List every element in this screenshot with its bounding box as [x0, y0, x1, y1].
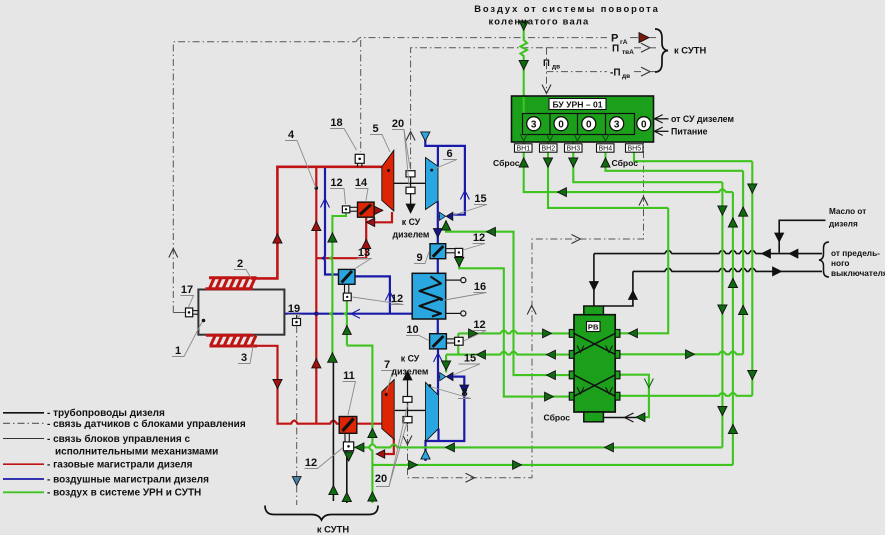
node: VN3 down arrow r3 — [718, 406, 727, 415]
svg-text:3: 3 — [614, 119, 620, 130]
node: down arrow below valve-11 sensor — [344, 452, 353, 461]
node: VN5 terminal box — [626, 144, 644, 152]
svg-text:дизелем: дизелем — [393, 230, 430, 240]
node: open down arrow into BU URN top — [542, 85, 551, 94]
wire: valve 13 to exhaust line tap with hop over red — [322, 168, 339, 275]
svg-text:12: 12 — [305, 457, 317, 469]
svg-text:П: П — [543, 58, 550, 69]
turbine 7 — [382, 380, 394, 440]
wire: line1 drop to RV valve — [593, 254, 595, 306]
node: VN5 down arrow r2 — [748, 370, 757, 379]
legend: air mains swatch — [3, 478, 44, 480]
node: indicator circle VN4 digit 3 — [610, 117, 624, 131]
legend: gas mains swatch — [3, 463, 44, 465]
node: port4 right arrow — [545, 392, 554, 401]
wire: turbine 5 outlet stub with left arrow — [373, 212, 392, 222]
node: junction dot at red crossing — [314, 312, 318, 316]
svg-text:18: 18 — [330, 117, 342, 129]
heat exchanger 16 — [412, 273, 446, 319]
wire: VN1 riser x732.9 down — [732, 192, 734, 465]
svg-text:- воздушные магистрали дизеля: - воздушные магистрали дизеля — [47, 474, 209, 485]
node: red up arrow on riser x277 — [273, 234, 282, 243]
wire: VN5 net - right at y161 — [634, 152, 752, 161]
wire: return line to limit switch (line 2) — [633, 268, 822, 271]
wire: valve-14 sensor green drop with hops — [329, 213, 346, 356]
node: open up arrow on valve13 riser — [385, 292, 394, 301]
wire: green supply from crankshaft turn system — [521, 28, 528, 96]
svg-text:Питание: Питание — [671, 127, 708, 137]
svg-text:12: 12 — [473, 232, 485, 244]
node: red up arrow on x316 riser lower — [312, 359, 321, 368]
svg-text:коленчатого вала: коленчатого вала — [489, 16, 590, 27]
node: VN2 terminal box — [540, 144, 558, 152]
node: up arrow to upper bowtie — [441, 221, 450, 230]
svg-text:15: 15 — [474, 193, 486, 205]
wire: dash-dot branch -P_dv to SUTN — [547, 71, 608, 73]
node: black down arrow into RV — [590, 282, 599, 291]
svg-text:ВН2: ВН2 — [541, 146, 555, 153]
node: VN2 down arrow at box — [543, 158, 552, 167]
node: BU URN title box — [549, 99, 606, 110]
valve 13 (blue) — [339, 269, 356, 284]
thermometer port upper of HX — [446, 279, 461, 281]
node: open down arrow on sbros drop — [644, 379, 653, 388]
wire: VN3 riser x722.4 down to y447 — [721, 182, 723, 447]
node: dark up arrow near SUTN brace x333 — [329, 485, 338, 494]
wire: dash-dot from P_tvA line down into BU URN — [546, 48, 548, 94]
svg-text:ВН1: ВН1 — [516, 146, 530, 153]
node: open up arrow on x464.9 — [460, 191, 469, 200]
svg-text:от предель-: от предель- — [831, 248, 880, 258]
svg-text:дизеля: дизеля — [829, 220, 858, 229]
sensor 17 — [186, 308, 193, 317]
node: VN1 left arrow — [558, 188, 567, 197]
node: red up arrow to valve 14 — [362, 239, 371, 248]
node: VN1 up arrow on riser 2 — [728, 278, 737, 287]
wire: turbine 7 outlet stub with left arrow — [379, 439, 394, 454]
svg-text:Масло от: Масло от — [829, 207, 866, 216]
wire: VN4 net - right at y171 — [606, 152, 744, 171]
node: indicator circle VN2 digit 0 — [554, 117, 568, 131]
node: open up arrow on feedback riser — [527, 306, 536, 315]
node: open down arrow on lower coupling link — [403, 436, 412, 445]
svg-text:Воздух от системы поворота: Воздух от системы поворота — [474, 3, 660, 14]
sensor 18 on exhaust line — [355, 154, 364, 163]
wire: valve 14 outlet to turbine 5 with right arrow — [374, 209, 382, 211]
control unit BU URN - 01 — [512, 96, 654, 142]
node: RV bottom tab — [584, 412, 604, 422]
svg-text:- газовые магистрали дизеля: - газовые магистрали дизеля — [47, 460, 193, 471]
node: black left arrow on line1 outer — [789, 249, 798, 258]
wire: bowtie-upper vent to RV left port3 — [446, 221, 569, 376]
svg-text:6: 6 — [446, 148, 452, 160]
svg-text:13: 13 — [358, 247, 370, 259]
node: open right arrow on SU link — [572, 235, 581, 244]
node: down arrow below valve-9 sensor — [455, 257, 464, 266]
wire: Pitanie input arrow — [655, 130, 669, 132]
wire: compressor 6 to valve 9 / HX riser — [437, 201, 439, 244]
wire: red branch riser x316 (node 4) — [315, 167, 317, 424]
valve 9 (blue) — [430, 244, 446, 259]
svg-text:0: 0 — [558, 119, 564, 130]
legend: control unit links swatch — [3, 438, 44, 440]
coupling 20 lower (sensor boxes on shaft) — [407, 378, 409, 424]
node: green down arrow top — [519, 21, 528, 30]
wire: VN5 riser x752 to RV port4 level — [751, 161, 753, 396]
svg-text:ВН3: ВН3 — [566, 146, 580, 153]
wire: turbo 5-6 shaft — [394, 182, 426, 184]
svg-text:1: 1 — [175, 345, 181, 357]
svg-text:к СУТН: к СУТН — [317, 524, 350, 535]
wire: valve-13 sensor green drop — [344, 301, 347, 346]
node: VN1 terminal box — [515, 144, 533, 152]
wire: HX 16 to valve 10 — [437, 319, 439, 334]
wire: valve 11 to turbine 7 inlet — [357, 423, 382, 425]
node: y447 left arrow mid — [446, 443, 455, 452]
wire: bowtie 15 left connector — [438, 215, 440, 217]
svg-text:ВН5: ВН5 — [627, 146, 641, 153]
node: up arrow on x372 riser — [368, 428, 377, 437]
sensor 12 of valve 11 — [343, 442, 353, 451]
node: indicator circle VN1 digit 3 — [527, 117, 541, 131]
wire: exhaust manifold 3 to valve 11 / turbine 7 — [254, 346, 339, 424]
node: open up arrow on sensor-17 link — [169, 249, 178, 258]
node: VN1 up arrow on riser 1 — [728, 218, 737, 227]
node: intake down arrow light blue — [421, 132, 430, 141]
exhaust manifold 3 (hatched) — [206, 335, 257, 346]
node: sbros green left arrow — [636, 413, 645, 422]
wire: VN2 riser x668 to RV right port1 — [621, 208, 669, 333]
node: port3 left arrow — [547, 371, 556, 380]
node: VN4 up arrow r1 — [739, 207, 748, 216]
node: red down arrow on manifold-3 drop — [273, 379, 282, 388]
svg-text:дизелем: дизелем — [392, 367, 429, 377]
node: port2 right arrow — [686, 350, 695, 359]
wire: ot SU dizelem input arrow — [655, 118, 669, 120]
wire: valve 9 to HX 16 — [437, 259, 439, 274]
node: blue-gray down arrow on sensor-19 link — [292, 477, 301, 486]
node: black up arrow on line2 drop — [629, 291, 638, 300]
svg-text:0: 0 — [641, 119, 647, 130]
node: brace ot predelnogo — [819, 242, 829, 277]
node: blue down arrow above valve 9 — [433, 229, 442, 238]
legend: sensor links swatch — [3, 422, 44, 424]
svg-text:15: 15 — [464, 353, 476, 365]
wire: RV sbros black segment — [603, 417, 636, 419]
thermometer port lower of HX — [446, 312, 461, 314]
bowtie valve 15 lower — [440, 373, 446, 381]
svg-text:11: 11 — [343, 370, 355, 382]
node: right arrow on y465 inner — [409, 461, 418, 470]
svg-text:20: 20 — [375, 473, 387, 485]
wire: dash-dot from coupling 20 up to P_tvA line — [411, 48, 547, 169]
wire: RV right port3 sbros loop — [621, 375, 649, 418]
wire: valve 10 to compressor 8 — [437, 349, 439, 395]
node: up arrow on valve-13 sensor line — [343, 326, 352, 335]
wire: valve 13 riser to charge line — [355, 276, 390, 313]
svg-text:ного: ного — [831, 258, 850, 268]
node: VN2 left arrow into RV port1 — [629, 329, 638, 338]
node: open up arrow below valve 10 — [434, 353, 443, 362]
sensor 12 of valve 10 — [455, 337, 464, 345]
node: VN3 terminal box — [565, 144, 583, 152]
sensor 19 — [296, 314, 298, 319]
valve 14 (red, with actuator stripe) — [358, 202, 375, 217]
svg-text:20: 20 — [392, 118, 404, 130]
svg-text:Сброс: Сброс — [544, 413, 571, 423]
wire: bowtie-lower vent drop — [445, 355, 447, 373]
wire: bowtie 15 lower left connector — [438, 376, 440, 378]
node: k SUTN bottom brace — [265, 506, 378, 521]
wire: dash-dot link sensor 17 to top bus — [173, 42, 356, 313]
wire: compressor 6 discharge stub — [437, 146, 439, 166]
node: port1 right arrow b — [543, 329, 552, 338]
wire: black SUTN line from valve-11 sensor x347 — [346, 451, 348, 503]
node: dark green up arrow at green-black junction — [328, 353, 338, 363]
wire: dash-dot drop to sensor 18 — [360, 40, 362, 152]
svg-text:гА: гА — [620, 39, 628, 46]
wire: line2 drop to RV tab — [603, 271, 633, 306]
svg-text:исполнительными механизмами: исполнительными механизмами — [55, 447, 218, 458]
sensor 12 of valve 14 — [342, 206, 349, 213]
node: port2 left arrow b — [547, 350, 556, 359]
node: RV side ports — [569, 330, 574, 338]
wire: exhaust manifold 2 to turbine 5 inlet — [251, 167, 382, 279]
node: VN1 up arrow on riser 3 — [728, 424, 737, 433]
wire: valve-10 sensor to RV left port1 with hops — [458, 331, 569, 334]
svg-text:дв: дв — [552, 64, 560, 71]
wire: VN1 return horizontal y465 — [372, 464, 733, 466]
air distributor RV — [574, 315, 615, 412]
node: open up arrow light blue on tap — [321, 199, 330, 208]
svg-text:14: 14 — [355, 177, 368, 189]
svg-text:дв: дв — [622, 73, 630, 80]
svg-text:ВН4: ВН4 — [598, 146, 612, 153]
node: black left arrow on line1 inner — [762, 249, 771, 258]
wire: green line inside BU URN — [523, 97, 525, 114]
svg-text:от СУ дизелем: от СУ дизелем — [671, 114, 734, 124]
node: black right arrow on line2 — [773, 267, 782, 276]
svg-text:- воздух в системе УРН и СУТН: - воздух в системе УРН и СУТН — [47, 488, 201, 499]
wire: turbo 7-8 shaft — [395, 409, 426, 411]
node: BU URN inner cell frame — [523, 114, 635, 135]
legend: URN air swatch — [3, 491, 44, 493]
node: up arrow on valve-14 sensor line — [328, 233, 337, 242]
wire: charge air main line to engine — [284, 313, 412, 315]
node: dark up arrow near SUTN brace x347 — [342, 492, 351, 501]
node: open arrow P_tvA — [641, 43, 650, 52]
svg-text:19: 19 — [288, 303, 300, 315]
svg-text:2: 2 — [237, 258, 243, 270]
svg-text:7: 7 — [384, 359, 390, 371]
node: open right arrow on feedback line — [466, 473, 475, 482]
node: left arrow on bowtie vent line — [487, 227, 496, 236]
node: y447 left arrow at sensor — [355, 443, 364, 452]
svg-text:9: 9 — [416, 252, 422, 264]
node: open arrow -P_dv — [641, 67, 650, 76]
node: port2 left arrow a — [477, 350, 486, 359]
node: VN4 up arrow vent — [601, 158, 610, 167]
svg-text:-П: -П — [610, 68, 621, 79]
node: down arrow to lower bowtie — [442, 361, 451, 370]
svg-text:- связь блоков управления с: - связь блоков управления с — [47, 433, 190, 445]
node: open up arrow on coupling-20 link — [406, 132, 415, 141]
node: RV top tab — [584, 306, 604, 315]
node: VN3 down arrow r1 — [718, 206, 727, 215]
turbine 5 — [382, 150, 394, 211]
node: indicator circle VN3 digit 0 — [582, 117, 596, 131]
node: VN5 down arrow r1 — [748, 184, 757, 193]
wire: dash-dot from lower coupling 20 to BU URN (speed feedback) — [408, 142, 644, 478]
node: y447 left arrow outer — [605, 443, 614, 452]
legend: diesel pipelines swatch — [3, 412, 44, 414]
wire: oil supply line from limit switch (line 1) — [594, 250, 822, 253]
svg-text:твА: твА — [622, 49, 634, 56]
node: curly brace to SUTN top right — [655, 29, 668, 72]
node: indicator circle VN5 digit 0 — [637, 117, 651, 131]
svg-text:к СУТН: к СУТН — [674, 45, 707, 56]
wire: compressor 8 discharge stub — [437, 429, 439, 441]
node: RV label box — [587, 322, 601, 332]
svg-text:10: 10 — [406, 324, 418, 336]
svg-text:выключателя: выключателя — [831, 268, 885, 278]
svg-text:12: 12 — [330, 177, 342, 189]
svg-text:РВ: РВ — [588, 323, 599, 332]
wire: bowtie-lower line to RV left port2 with hops — [446, 352, 569, 355]
svg-text:16: 16 — [474, 281, 486, 293]
wire: VN2 net - to RV port 1 — [548, 142, 668, 208]
wire: dash-dot hop and P_gA line to SUTN — [356, 37, 607, 42]
node: leader dot for label 4 — [315, 186, 319, 190]
wire: red link to valve 14 bottom — [316, 217, 366, 258]
node: black down arrow on oil feed — [775, 233, 784, 242]
node: green down arrow below wiggle — [519, 60, 528, 69]
valve 11 (red) — [339, 417, 357, 434]
svg-text:5: 5 — [372, 123, 378, 135]
svg-text:П: П — [612, 44, 619, 55]
svg-text:к СУ: к СУ — [402, 217, 421, 227]
valve 10 (blue) — [430, 334, 447, 349]
svg-text:Сброс: Сброс — [612, 158, 639, 168]
wire: dash-dot from sensor 19 down — [296, 326, 298, 505]
node: right arrow on y465 outer — [513, 461, 522, 470]
engine block 1 — [198, 290, 284, 335]
svg-text:к СУ: к СУ — [401, 354, 420, 364]
wire: lower turbo loop bowtie to intake — [426, 377, 465, 461]
wire: VN1 return riser x372.4 with hop over y447 — [347, 346, 373, 465]
node: down arrow to SU diesel upper — [406, 204, 415, 213]
wire: oil line from Maslo ot dizelya — [779, 220, 825, 253]
svg-text:17: 17 — [181, 284, 193, 296]
node: intake up arrow light blue lower — [421, 450, 430, 459]
svg-text:- связь датчиков с блоками упр: - связь датчиков с блоками управления — [47, 418, 246, 430]
wire: compressor 6 intake stub — [425, 132, 465, 215]
wire: VN4 riser x743 to RV port2 level — [742, 171, 744, 354]
bowtie valve 15 upper — [440, 212, 446, 220]
svg-text:12: 12 — [473, 319, 485, 331]
wire: VN3 horizontal y447 to valve-11 sensor with hops — [354, 445, 723, 448]
node: up arrow to SU diesel lower — [403, 371, 412, 380]
node: VN3 down arrow at box — [569, 158, 578, 167]
wire: valve-10 sensor drop — [457, 333, 459, 354]
svg-text:4: 4 — [288, 129, 295, 141]
node: open down arrows inside BU URN — [520, 134, 527, 141]
compressor 8 — [426, 382, 439, 441]
wire: RV right port2 line with hops — [621, 351, 744, 354]
node: open left arrow on charge line — [351, 309, 360, 318]
node: up arrow at SUTN end x372.4 — [368, 492, 377, 501]
compressor 6 — [426, 158, 439, 210]
node: VN1 up arrow at box — [519, 158, 528, 167]
node: RV lower X valve — [574, 375, 615, 396]
svg-text:БУ УРН – 01: БУ УРН – 01 — [552, 99, 602, 109]
exhaust manifold 2 (hatched) — [206, 278, 257, 289]
node: port1 right arrow a — [469, 329, 478, 338]
svg-text:3: 3 — [531, 119, 537, 130]
wire: VN3 net - right at y182 — [573, 142, 722, 182]
node: VN3 down arrow r2 — [718, 305, 727, 314]
svg-text:0: 0 — [586, 119, 592, 130]
sensor 12 of valve 9 — [455, 248, 463, 256]
wire: black SUTN line from green arrow x333 — [332, 362, 334, 501]
node: VN4 up arrow r2 — [739, 305, 748, 314]
node: RV upper X valve — [574, 333, 615, 354]
wire: valve-9 sensor to RV left port4 — [459, 257, 569, 397]
node: engine dot — [202, 319, 206, 323]
wire: RV right port4 line with hops — [621, 393, 753, 396]
svg-text:- трубопроводы дизеля: - трубопроводы дизеля — [47, 407, 165, 419]
node: open up arrow on VN5 dash riser — [639, 197, 648, 206]
sensor 12 of valve 13 — [343, 293, 351, 301]
node: P_gA dark red arrow — [639, 33, 649, 43]
node: red up arrow on x316 riser upper — [312, 221, 321, 230]
node: VN4 terminal box — [597, 144, 615, 152]
node: blue down arrow on x464.3 — [460, 385, 469, 394]
svg-text:Сброс: Сброс — [493, 158, 520, 168]
node: open left arrow on sbros — [625, 413, 634, 422]
svg-text:3: 3 — [241, 352, 247, 364]
wire: green SUTN drop at x372.4 — [371, 465, 373, 503]
coupling 20 upper (sensor boxes on shaft) — [410, 171, 412, 212]
wire: VN1 net - down and right — [524, 142, 733, 192]
